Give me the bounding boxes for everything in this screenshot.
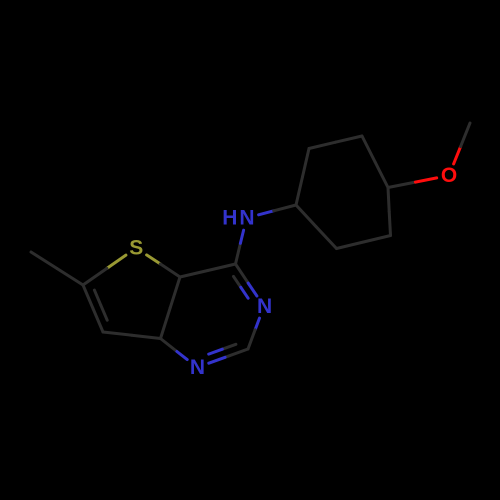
bond C4=N3 double inner line (234, 276, 241, 287)
bond NH-C1' to cyclohexyl ring (259, 211, 274, 215)
bond N3-C2 (255, 318, 259, 330)
bond cyclohexane ring edge F-A (316, 227, 336, 249)
svg-text:N: N (190, 356, 205, 379)
bond O-CH3 methoxy (454, 147, 461, 164)
bond cyclohexane ring edge C-D (362, 136, 375, 162)
bond C6=C5 double (83, 285, 93, 309)
svg-text:S: S (129, 237, 143, 260)
svg-text:O: O (441, 164, 457, 187)
bond C4=N3 double (236, 264, 249, 283)
bond C4'-O ether (388, 182, 415, 187)
svg-text:H: H (222, 207, 237, 230)
bond C6-CH3 methyl (57, 269, 83, 286)
bond cyclohexane ring edge E-F (364, 236, 391, 243)
bond C2=N1 double (225, 349, 248, 357)
bond C5-C4b (103, 332, 132, 335)
bond cyclohexane ring edge A-B (296, 177, 303, 205)
bond C4b-N1 (161, 339, 177, 352)
bond S1-C7a (sulfur-carbon) (147, 255, 161, 264)
bond C4-NH amine link (236, 243, 241, 264)
bond cyclohexane ring edge D-E (388, 188, 389, 212)
svg-text:N: N (239, 206, 254, 229)
bond C6=C5 double inner line (94, 290, 100, 305)
svg-text:N: N (257, 295, 272, 318)
bond S1-C6 (sulfur-carbon) (107, 255, 126, 268)
bond cyclohexane ring edge B-C (309, 142, 336, 148)
bond C7a-C4 (180, 271, 208, 278)
bond C4b-C7a ring fusion (161, 308, 171, 339)
bond C2=N1 double inner line (222, 344, 236, 349)
